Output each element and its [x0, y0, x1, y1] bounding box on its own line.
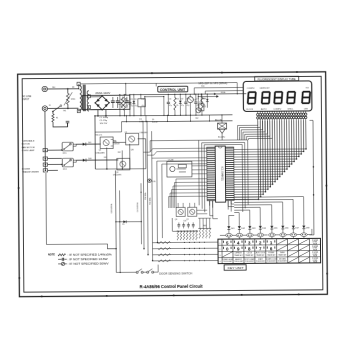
svg-text:TIMER SET: TIMER SET: [256, 255, 264, 257]
wire center-left vertical 1: [114, 170, 117, 272]
wire box bottom drop left: [94, 116, 96, 169]
svg-text:AC LINE: AC LINE: [22, 95, 31, 98]
label FLUORESCENT DISPLAY TUBE: [255, 76, 299, 81]
svg-text:DTA143ES: DTA143ES: [113, 174, 122, 177]
wire buzzer top: [221, 115, 223, 123]
regulator IC2: [138, 99, 146, 107]
svg-text:HIGH: HIGH: [313, 255, 317, 257]
capacitor C3: [126, 97, 128, 101]
spade terminal 2: [43, 157, 47, 160]
wire Q8 Q9 to IC: [197, 209, 207, 211]
capacitor C5: [129, 95, 131, 103]
svg-text:HIGH: HIGH: [313, 243, 317, 245]
wire vertical run A: [142, 122, 145, 249]
relay RY2: [62, 158, 73, 167]
resistor array RA2: [198, 227, 211, 229]
svg-text:: IF NOT SPECIFIED 1/4W±5%: : IF NOT SPECIFIED 1/4W±5%: [68, 253, 113, 256]
connector pin E8: [301, 233, 308, 237]
svg-text:CX-480: CX-480: [168, 159, 174, 161]
svg-text:: IF NOT SPECIFIED 1/16W: : IF NOT SPECIFIED 1/16W: [68, 258, 109, 261]
svg-text:GRILL: GRILL: [287, 108, 294, 110]
svg-text:D31: D31: [104, 157, 107, 159]
svg-text:R10: R10: [175, 98, 178, 100]
svg-text:Q3: Q3: [116, 172, 118, 174]
transistor Q1: [100, 137, 113, 149]
transistor Q2: [126, 133, 139, 145]
zener diode D2: [179, 94, 181, 100]
ic U1 body: [215, 146, 225, 202]
wire nested loop around IC 1: [199, 140, 249, 205]
wire signal arrow: [198, 95, 216, 97]
capacitor C8: [185, 94, 187, 102]
bridge rectifier DB1: [95, 96, 109, 110]
resistor R3: [123, 98, 125, 111]
svg-text:47µ: 47µ: [181, 105, 184, 107]
relay RY1: [62, 142, 73, 151]
thermal cutout S1: [52, 111, 54, 113]
wire door switch line: [116, 271, 136, 273]
label KEY UNIT: [224, 265, 246, 271]
svg-text:D41: D41: [88, 142, 91, 144]
svg-text:LEVEL: LEVEL: [313, 254, 318, 256]
svg-text:C14: C14: [203, 106, 206, 108]
svg-text:NOTE: NOTE: [48, 254, 55, 257]
zone tick marks: [151, 72, 153, 74]
svg-text:LBS: LBS: [304, 108, 309, 110]
display tube outline: [243, 81, 312, 112]
svg-text:R51 100k: R51 100k: [150, 197, 152, 204]
zener diode D1: [133, 95, 135, 101]
wire S1 branch: [53, 122, 68, 127]
svg-text:263A 110V: 263A 110V: [95, 92, 110, 95]
wire bus lower: [95, 168, 145, 170]
diode D4 vertical: [140, 183, 142, 244]
svg-text:IC1 SM8021: IC1 SM8021: [221, 166, 225, 181]
capacitor row C30: [178, 222, 180, 224]
svg-text:C2 470µ: C2 470µ: [99, 120, 107, 122]
svg-text:OVEN LAMP: OVEN LAMP: [22, 149, 35, 152]
transistor Q11: [196, 108, 201, 113]
svg-text:D5: D5: [122, 224, 124, 226]
key matrix function labels: [223, 252, 233, 257]
svg-text:TOUCH KEY: TOUCH KEY: [267, 261, 276, 263]
svg-text:TOUCH KEY: TOUCH KEY: [245, 261, 254, 263]
svg-text:COMPU: COMPU: [247, 88, 255, 90]
svg-text:LEVEL: LEVEL: [313, 248, 318, 250]
wire bus lower2: [122, 120, 233, 123]
diode D66: [282, 224, 284, 225]
svg-text:Q10: Q10: [193, 99, 196, 101]
power rectifier enclosure box: [82, 95, 130, 110]
wire vertical run E: [161, 164, 164, 238]
wire left vertical feed: [44, 111, 46, 170]
wire left feed to door: [45, 173, 48, 244]
wire transformer top to control area: [78, 84, 80, 89]
svg-text:TOUCH KEY: TOUCH KEY: [278, 261, 287, 263]
svg-text:POWER: POWER: [268, 252, 275, 254]
connector pin E3: [247, 233, 254, 237]
wire vfd feed 1: [194, 86, 243, 88]
svg-text:47µ: 47µ: [134, 105, 137, 107]
svg-text:Q1: Q1: [99, 150, 101, 152]
svg-text:R-4A86/96 Control Panel Circui: R-4A86/96 Control Panel Circuit: [140, 284, 204, 289]
diode D67: [292, 224, 294, 225]
svg-text:16V 25V: 16V 25V: [100, 123, 108, 125]
connector pin E1: [226, 233, 233, 237]
svg-text:R24: R24: [201, 86, 204, 88]
svg-text:1: 1: [220, 243, 221, 245]
capacitor C1: [112, 97, 114, 101]
key matrix grid: [218, 243, 320, 246]
svg-text:TRANSFORMER: TRANSFORMER: [22, 171, 39, 174]
svg-text:1SR139: 1SR139: [114, 143, 120, 145]
svg-text:HIGH: HIGH: [313, 262, 317, 264]
resistor R1: [52, 114, 54, 122]
key matrix slashes: [277, 239, 287, 244]
diode D41: [76, 143, 100, 145]
diode D40: [76, 159, 118, 161]
svg-text:TIMER SET: TIMER SET: [278, 255, 286, 257]
svg-text:R62: R62: [195, 118, 198, 120]
svg-text:DEFROST: DEFROST: [235, 253, 242, 255]
wire nested loop around IC 3: [204, 144, 243, 212]
svg-text:TOUCH KEY: TOUCH KEY: [234, 261, 243, 263]
display digits 8 8 8 8 8: [249, 91, 256, 93]
resistor R10: [174, 97, 176, 110]
diode D5: [116, 221, 141, 223]
connector pin E2: [236, 233, 243, 237]
svg-text:CLOCK: CLOCK: [246, 109, 254, 111]
svg-text:TOUCH KEY: TOUCH KEY: [223, 261, 232, 263]
diode D61: [228, 225, 230, 226]
resistor array RA1: [176, 230, 198, 232]
svg-text:C5: C5: [130, 99, 132, 101]
svg-text:R61: R61: [203, 98, 206, 100]
wire bus lower2 drop left: [95, 122, 122, 132]
wire nested loop around IC 2: [202, 142, 246, 208]
svg-text:D1: D1: [134, 99, 136, 101]
crystal oscillator CX1: [167, 161, 192, 177]
door sensing switch contacts: [136, 271, 138, 273]
wire right rail: [312, 120, 315, 234]
wire key row lines: [152, 241, 217, 244]
svg-text:D2: D2: [181, 98, 183, 100]
svg-text:INPUT: INPUT: [22, 99, 30, 101]
svg-text:D1 1S2076A: D1 1S2076A: [110, 203, 113, 213]
svg-text:Q2: Q2: [125, 132, 127, 134]
svg-text:FLUORESCENT DISPLAY TUBE: FLUORESCENT DISPLAY TUBE: [258, 77, 296, 81]
wire vertical run C: [152, 131, 153, 260]
svg-text:C12: C12: [139, 119, 142, 121]
svg-text:C4: C4: [120, 99, 122, 101]
svg-text:KEY UNIT: KEY UNIT: [228, 266, 244, 270]
svg-text:VRS1: VRS1: [71, 99, 75, 101]
svg-text:4.7k: 4.7k: [175, 105, 178, 107]
svg-text:R30 4.7k: R30 4.7k: [96, 135, 103, 137]
svg-text:KG: KG: [306, 87, 309, 89]
svg-text:R50 100k: R50 100k: [145, 192, 147, 199]
svg-text:HIGH: HIGH: [313, 249, 317, 251]
connector pin E4: [257, 233, 264, 237]
wire bundle display to logic: [257, 121, 260, 199]
svg-text:MEMORY: MEMORY: [235, 259, 242, 261]
svg-text:DEFROST: DEFROST: [260, 88, 271, 90]
varistor VRS1: [67, 89, 69, 93]
wire routing to key diodes: [229, 215, 235, 224]
svg-text:FAN MOTOR: FAN MOTOR: [22, 146, 35, 149]
wire row feeds join: [143, 248, 144, 249]
buzzer BZ1: [218, 123, 227, 129]
key matrix outline: [218, 238, 321, 263]
svg-text:MOTOR: MOTOR: [22, 144, 31, 146]
transistor Q10: [187, 97, 193, 103]
label box CONTROL UNIT: [158, 86, 188, 92]
svg-text:COMPU COOK: COMPU COOK: [266, 258, 278, 260]
svg-text:AUTO: AUTO: [261, 108, 267, 111]
wire vertical run D: [156, 161, 159, 242]
wire crystal to IC: [192, 165, 207, 167]
wire AC upper to transformer: [47, 88, 78, 90]
ic U1 pin row right: [225, 147, 234, 201]
capacitor C6: [167, 94, 169, 102]
svg-text:47µ: 47µ: [141, 105, 144, 107]
svg-text:D40: D40: [88, 158, 91, 160]
terminal AC input upper: [42, 86, 47, 91]
spade terminal 1: [43, 149, 47, 152]
wire vertical run B: [147, 121, 148, 254]
transformer T1 core: [82, 85, 84, 111]
wire buzzer bottom: [221, 133, 223, 140]
capacitor C0: [66, 120, 70, 122]
spade terminal 3: [43, 163, 47, 166]
svg-text:POWER: POWER: [312, 246, 319, 248]
wire center-left vertical 1b: [119, 190, 122, 272]
svg-text:BZ-2kHz: BZ-2kHz: [218, 136, 225, 138]
svg-text:BA COM: BA COM: [215, 119, 223, 122]
wire IC left stub fan lower: [176, 178, 207, 180]
svg-text:Q9: Q9: [186, 219, 188, 221]
svg-text:47µ: 47µ: [120, 105, 123, 107]
transformer T1 secondary winding: [87, 91, 89, 95]
svg-text:KITCHEN: KITCHEN: [279, 258, 286, 260]
svg-text:4: 4: [220, 261, 221, 263]
svg-text:POWER: POWER: [22, 169, 31, 171]
capacitor C9: [195, 94, 197, 102]
wire center-left vertical 2: [121, 150, 123, 168]
svg-text:POWER LEVEL: POWER LEVEL: [222, 259, 233, 261]
wire connector left fan to IC top: [238, 121, 258, 140]
diode D63: [249, 225, 251, 226]
wire AC lower to transformer: [48, 107, 79, 109]
svg-text:Q8: Q8: [175, 219, 177, 221]
svg-text:C1 1000µ: C1 1000µ: [99, 117, 109, 119]
svg-text:CONTROL UNIT: CONTROL UNIT: [160, 88, 186, 92]
display connector pin rows: [257, 111, 259, 113]
resistor R12: [201, 97, 203, 110]
diode D65: [271, 224, 273, 225]
svg-text:47µ: 47µ: [186, 105, 189, 107]
svg-text:X1: X1: [199, 102, 201, 104]
svg-text:TIMER SET: TIMER SET: [234, 255, 242, 257]
svg-text:POWER: POWER: [312, 240, 319, 242]
svg-text:3: 3: [220, 255, 221, 257]
svg-text:R31: R31: [113, 140, 116, 142]
wire key oval chain ends: [220, 234, 226, 236]
wire loop empty section: [145, 96, 164, 98]
border frame outer: [18, 72, 328, 297]
svg-text:DTA143ES: DTA143ES: [96, 152, 106, 155]
wire door to matrix: [157, 265, 159, 272]
capacitor C2: [117, 97, 119, 101]
svg-text:VFD-22P IN VF3 (22NA): VFD-22P IN VF3 (22NA): [198, 82, 227, 85]
wire relay RY1 to driver: [73, 143, 100, 145]
spade terminal 4: [43, 169, 47, 172]
svg-text:C6: C6: [169, 99, 171, 101]
wire drop x126 to box: [125, 84, 127, 95]
transformer T1 primary winding: [80, 86, 82, 90]
transformer terminal pins: [77, 82, 80, 85]
transistor Q9: [188, 207, 197, 216]
svg-text:D9: D9: [152, 119, 154, 121]
ic U1 pin row left: [207, 147, 216, 201]
svg-text:DOOR SENSING SWITCH: DOOR SENSING SWITCH: [159, 272, 192, 275]
border frame inner: [22, 76, 323, 292]
svg-text:TOUCH KEY: TOUCH KEY: [256, 261, 265, 263]
diode D62: [238, 225, 240, 226]
diode D64: [259, 225, 261, 226]
svg-text:TURNTABLE: TURNTABLE: [22, 140, 35, 143]
svg-text:POWER: POWER: [312, 258, 319, 260]
svg-text:RD5.6E: RD5.6E: [152, 122, 158, 124]
svg-text:R3: R3: [125, 99, 127, 101]
svg-text:47µ: 47µ: [169, 105, 172, 107]
reset circuit parts: [200, 94, 202, 104]
wire IC left stub fan: [143, 148, 207, 152]
wire bus GND mid: [95, 115, 232, 116]
wire vfd feed 2: [205, 90, 243, 92]
wire bridge input: [90, 96, 101, 98]
wire bridge to bus: [97, 110, 99, 116]
wire driver rails: [113, 141, 126, 143]
resistor R2: [121, 97, 123, 108]
svg-text:LEVEL: LEVEL: [313, 241, 318, 243]
connector pin E6: [280, 233, 287, 237]
svg-text:R1: R1: [56, 117, 58, 119]
wire IC bottom stubs: [209, 201, 211, 206]
svg-text:COMPU: COMPU: [273, 109, 281, 111]
wire bus +V top: [130, 93, 246, 96]
wire loop top extension: [150, 139, 198, 141]
svg-text:4.7k: 4.7k: [125, 105, 128, 107]
svg-text:2: 2: [220, 249, 221, 251]
svg-text:D35: D35: [152, 181, 155, 183]
svg-text:TIMER SET: TIMER SET: [267, 255, 275, 257]
transistor Q3: [117, 158, 130, 170]
wire array feed: [172, 218, 176, 231]
svg-text:: IF NOT SPECIFIED 50WV: : IF NOT SPECIFIED 50WV: [68, 262, 110, 265]
terminal AC input lower: [42, 106, 47, 111]
connector pin E5: [269, 233, 276, 237]
svg-text:POWER: POWER: [312, 252, 319, 254]
transistor Q8: [176, 207, 185, 216]
svg-text:IC2: IC2: [141, 99, 144, 101]
svg-text:47µ: 47µ: [130, 105, 133, 107]
wire relay RY2 to driver: [73, 159, 118, 161]
wire spade stubs: [47, 149, 61, 151]
diode D35 indicator: [148, 179, 151, 182]
diode D68: [303, 224, 305, 225]
capacitor C4: [119, 95, 121, 103]
svg-text:Q30: Q30: [131, 149, 134, 151]
svg-text:F1: F1: [49, 105, 51, 107]
svg-text:R32: R32: [118, 152, 121, 154]
svg-text:LEVEL: LEVEL: [313, 260, 318, 262]
svg-text:TH1: TH1: [63, 110, 66, 112]
svg-text:TIMER SET: TIMER SET: [245, 255, 253, 257]
svg-text:D4 1S2076A: D4 1S2076A: [136, 202, 139, 212]
connector pin E7: [290, 233, 297, 237]
